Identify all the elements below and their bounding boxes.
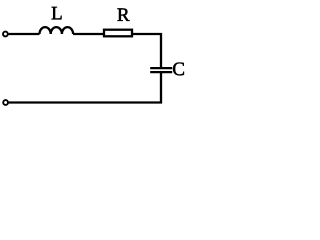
wire (capacitor down, bottom rail to terminal T2) [9, 72, 161, 102]
wire (inductor to resistor) [73, 33, 104, 35]
label C [173, 63, 184, 76]
capacitor C [150, 68, 172, 72]
inductor L [40, 27, 74, 34]
label L [52, 7, 62, 19]
wire (terminal T1 to inductor) [9, 33, 40, 35]
terminal T1 (top-left input) [3, 32, 8, 37]
resistor R [104, 30, 132, 37]
terminal T2 (bottom-left input) [3, 100, 8, 105]
wire (resistor to top-right corner and down to capacitor) [132, 34, 161, 68]
label R [117, 8, 129, 20]
